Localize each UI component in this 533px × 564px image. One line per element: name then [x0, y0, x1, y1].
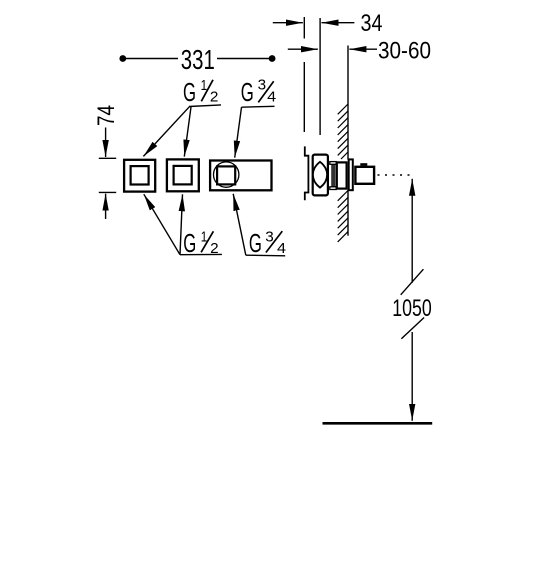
- stub pipe top tab: [360, 163, 367, 166]
- label G 3/4 bottom: fraction slash: [266, 231, 282, 252]
- leader G 1/2 bottom to square 1: [144, 194, 180, 255]
- valve flange: [349, 159, 353, 190]
- label G 3/4 bottom underline: [246, 254, 285, 257]
- leader G 3/4 bottom to spout square: [233, 194, 246, 255]
- dim 1050 break slash lower: [401, 318, 424, 339]
- valve threaded ring bottom cap: [330, 187, 336, 190]
- label G 1/2 top: fraction slash: [201, 80, 213, 102]
- dotted centerline to dimension: [378, 174, 412, 176]
- handle square 1 inner: [131, 166, 149, 184]
- svg-text:4: 4: [267, 89, 276, 106]
- extension line B (x=320): [319, 18, 321, 135]
- svg-text:G: G: [183, 228, 196, 258]
- handle square 1 outer: [124, 160, 155, 192]
- spout bar rectangle: [210, 161, 271, 191]
- spout square: [217, 166, 235, 184]
- valve threaded ring: [331, 162, 335, 189]
- dim 34 left arrow: [273, 22, 303, 24]
- wall hatching upper: [338, 104, 348, 159]
- svg-text:G: G: [241, 77, 254, 107]
- svg-text:30-60: 30-60: [378, 38, 431, 65]
- label G 1/2 bottom: fraction slash: [201, 231, 213, 252]
- leader G 3/4 top to spout square: [235, 107, 242, 157]
- svg-text:4: 4: [277, 240, 286, 257]
- dim 74 lower tick: [99, 191, 116, 193]
- handle square 2 inner: [174, 166, 192, 185]
- svg-text:3: 3: [258, 77, 267, 94]
- dim 74 lower arrow line: [105, 194, 107, 219]
- label G 3/4 top: fraction slash: [258, 81, 273, 102]
- handle square 2 outer: [167, 159, 199, 191]
- svg-text:74: 74: [93, 105, 120, 126]
- label G 1/2 bottom underline: [180, 253, 222, 255]
- svg-text:G: G: [249, 228, 262, 258]
- leader G 1/2 top to square 1: [143, 107, 189, 157]
- valve backplate bracket: [305, 146, 309, 200]
- wall line lower: [347, 190, 349, 236]
- dim 1050 break slash upper: [401, 269, 424, 295]
- leader G 1/2 top to square 2: [184, 107, 191, 157]
- floor line: [323, 422, 433, 425]
- wall hatching lower: [338, 191, 348, 242]
- dim 331 line left segment: [123, 58, 178, 60]
- label G 3/4 top underline: [242, 105, 275, 108]
- valve cylinder body: [337, 162, 347, 188]
- valve handle body: [313, 155, 328, 196]
- valve threaded ring top cap: [330, 162, 336, 165]
- dim 30-60 right arrow: [349, 48, 377, 50]
- extension line A (x=304) upper: [303, 17, 305, 39]
- spout circle: [214, 162, 239, 187]
- svg-text:2: 2: [210, 89, 219, 106]
- valve handle lens: [313, 162, 327, 188]
- dim 34 right arrow: [322, 22, 355, 24]
- dim 74 upper tick: [99, 157, 116, 159]
- dim 331 dot left: [119, 55, 126, 62]
- svg-text:331: 331: [181, 44, 215, 75]
- svg-text:G: G: [183, 77, 196, 107]
- wall line upper: [347, 46, 349, 160]
- extension line A (x=304) lower: [303, 62, 305, 132]
- dim 1050 lower line: [411, 332, 413, 421]
- svg-text:1050: 1050: [392, 295, 432, 322]
- label G 1/2 top underline: [189, 105, 221, 107]
- leader G 1/2 bottom to square 2: [180, 194, 183, 254]
- dim 1050 upper line: [411, 179, 413, 283]
- svg-text:34: 34: [361, 10, 383, 37]
- dim 74 upper arrow line: [105, 128, 107, 158]
- stub pipe: [355, 167, 374, 184]
- dim 331 dot right: [269, 55, 276, 62]
- dim 331 line right segment: [217, 58, 272, 60]
- dim 30-60 left arrow: [288, 48, 318, 50]
